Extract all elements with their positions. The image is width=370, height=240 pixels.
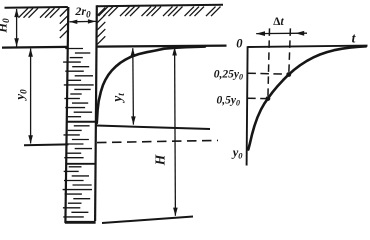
svg-text:y0: y0	[12, 89, 29, 102]
dimension H: arrow line	[174, 47, 177, 215]
dashed horizontal 0.25y0 level	[247, 73, 288, 74]
water level line at time t (solid, right of well)	[97, 126, 211, 130]
ground surface top line right segment	[97, 5, 223, 6]
svg-text:0,5y0: 0,5y0	[217, 95, 240, 108]
ground line right segment	[97, 46, 227, 47]
dimension H0: arrow line	[16, 9, 18, 47]
well left wall	[65, 7, 68, 223]
dashed vertical t2	[289, 28, 291, 74]
point on curve at 0.25y0	[286, 72, 291, 77]
dashed vertical t1	[268, 28, 270, 98]
dimension yt: arrow line	[132, 48, 135, 124]
hatching top band of right block	[99, 7, 221, 17]
dimension y0 (left): arrow line	[30, 49, 32, 144]
svg-text:2r0: 2r0	[74, 4, 91, 19]
svg-text:0: 0	[236, 37, 243, 51]
hatching top band of left block	[19, 8, 60, 18]
svg-text:yt: yt	[110, 93, 127, 104]
svg-text:H: H	[153, 154, 168, 166]
initial lowered level line left of well (solid)	[24, 143, 69, 146]
delta-t dimension line	[256, 32, 307, 34]
ground line left segment	[2, 46, 68, 49]
hatching along left well wall	[60, 9, 68, 39]
svg-text:H0: H0	[0, 18, 11, 34]
dimension 2r0: arrow line	[70, 20, 96, 22]
graph t-axis	[248, 46, 368, 47]
svg-text:Δt: Δt	[273, 16, 284, 28]
svg-text:0,25y0: 0,25y0	[214, 69, 243, 82]
ground surface top line left segment	[5, 6, 68, 9]
graph recovery curve	[248, 46, 366, 149]
svg-text:t: t	[352, 31, 357, 46]
aquifer bottom line	[102, 217, 193, 224]
point on curve at 0.5y0	[266, 96, 271, 101]
hatching along right well wall	[97, 8, 105, 45]
well right wall	[95, 5, 97, 221]
dashed horizontal 0.5y0 level	[247, 97, 267, 99]
water dashes inside well	[63, 49, 97, 223]
graph y-axis (downward)	[247, 46, 248, 165]
depression curve (left diagram)	[97, 47, 205, 123]
initial lowered level dashed line right of well	[97, 140, 218, 142]
svg-text:y0: y0	[231, 146, 244, 161]
